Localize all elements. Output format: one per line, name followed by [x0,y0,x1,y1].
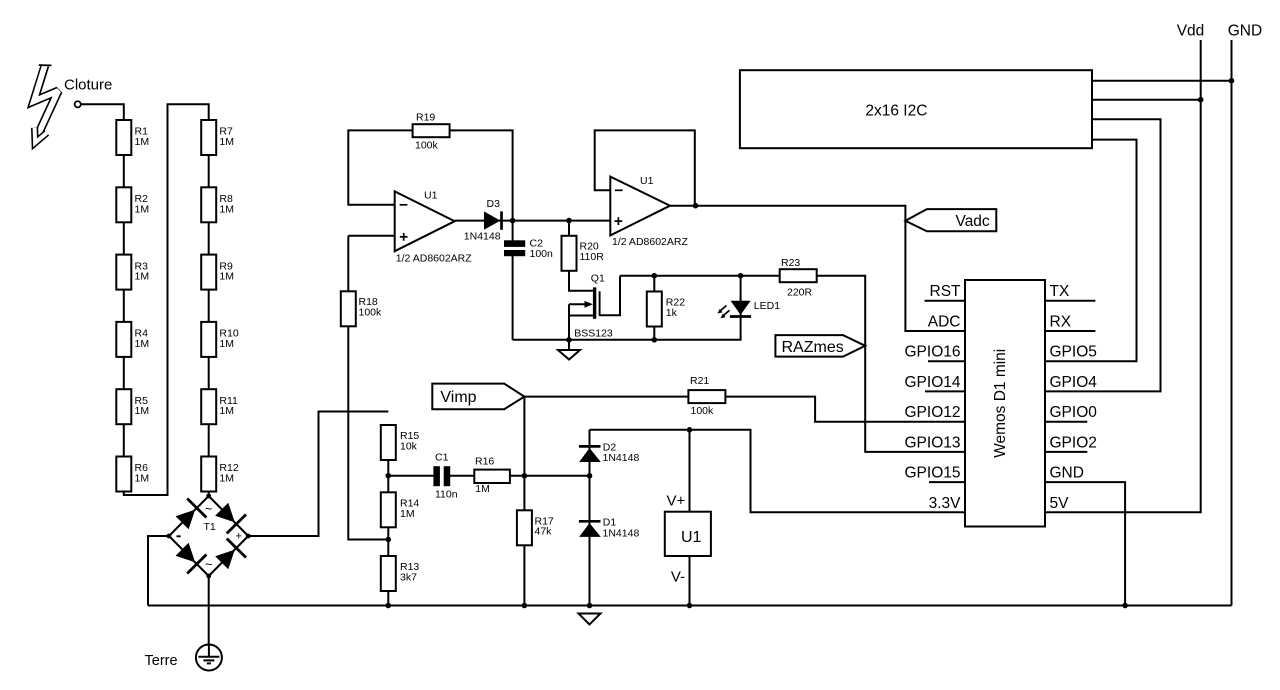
net flag RAZmes [775,335,865,357]
svg-text:RX: RX [1050,314,1072,331]
module LCD 2x16 I2C [740,70,1092,148]
svg-text:~: ~ [205,557,213,572]
diode D3 1N4148 [464,198,502,242]
pin labels Wemos right (TX RX GPIO5 GPIO4 GPIO0 GPIO2 GND 5V) [1050,283,1098,512]
junction LCD/GND [1229,78,1235,84]
wire Cloture terminal to R1..R6 column, up to R7..R12 column [81,104,209,496]
resistor R10 1M [201,322,239,357]
resistor R11 1M [201,389,238,424]
wire bridge + output to R15 top [248,412,388,537]
svg-text:GPIO2: GPIO2 [1050,434,1097,451]
wire R23 to RAZmes / GPIO13 [815,276,966,452]
resistor R22 1k [647,292,685,327]
junction R15/R14/C1 node [386,473,392,479]
op-amp U1 (1/2 AD8602ARZ) second half [610,175,688,248]
svg-text:Q1: Q1 [591,273,605,285]
capacitor C1 110n [433,451,457,500]
ground (Q1 source) [558,350,580,360]
svg-text:GND: GND [1050,465,1084,482]
svg-text:T1: T1 [204,521,216,533]
svg-text:1M: 1M [400,508,415,520]
LED LED1 [717,300,780,318]
resistor R17 47k [517,510,554,545]
power label Vdd [1177,22,1205,39]
IC Wemos D1 mini [965,280,1045,527]
wire R16 to Vimp node to D1/D2 node [510,475,590,477]
svg-text:5V: 5V [1050,495,1070,512]
svg-text:Wemos D1 mini: Wemos D1 mini [992,349,1009,458]
svg-text:GPIO13: GPIO13 [905,434,961,451]
wire Vimp net to R21 [524,396,688,398]
junction Vimp/R16/R17 node [522,473,528,479]
wire R22 vertical [653,276,655,340]
wire U1 V+ / V- [689,430,691,606]
ground (D1 / main rail) [579,614,601,625]
resistor R5 1M [116,389,149,424]
svg-text:1M: 1M [135,338,150,350]
ground Terre (earth electrode) [196,645,222,671]
wire D2/D1 chain [589,430,591,606]
svg-text:Cloture: Cloture [64,77,112,94]
junction R14/R13/R18 node [386,537,392,543]
svg-text:1M: 1M [135,136,150,148]
junction dots on ground rail [386,603,1128,609]
svg-text:GPIO5: GPIO5 [1050,344,1097,361]
svg-text:Vdd: Vdd [1177,22,1205,39]
resistor R7 1M [201,120,234,155]
transistor Q1 BSS123 (N-MOSFET) [569,273,613,340]
wire Q1 source to ground [569,276,620,350]
junction R22 top / LED1 top [652,273,744,279]
svg-text:1M: 1M [135,203,150,215]
wire bridge AC bottom to Terre earth [208,576,210,645]
capacitor C2 100n [504,237,553,259]
resistor R2 1M [116,187,149,222]
svg-text:GPIO15: GPIO15 [905,465,961,482]
wire LCD SDA to GPIO4 [1045,119,1161,391]
svg-text:GPIO16: GPIO16 [905,344,961,361]
wire Vimp node down to R16/R17 junction [523,397,525,476]
svg-text:1k: 1k [666,307,678,319]
svg-text:C1: C1 [435,451,449,463]
svg-text:GPIO12: GPIO12 [905,404,961,421]
label Terre [145,653,178,669]
svg-text:TX: TX [1050,283,1070,300]
resistor R9 1M [201,255,234,290]
pin stub GPIO2 [1045,451,1087,453]
svg-text:100n: 100n [530,248,554,260]
wire op-amp U1a output / D3 / C2 node to U1b + input [455,220,611,222]
svg-text:110n: 110n [435,489,458,501]
svg-text:1M: 1M [475,483,490,495]
svg-text:V-: V- [671,569,685,586]
wire op-amp U1a - input feedback via R19 [348,130,512,339]
wire R18 bottom to R14/R13 junction [348,326,388,539]
resistor R12 1M [201,457,239,492]
wire R15 bottom / R14 top / C1 node [388,460,434,492]
net label Cloture [64,77,112,94]
svg-text:R19: R19 [416,112,435,124]
resistor R4 1M [116,322,149,357]
junction D3/C2/R20 node [510,218,572,224]
svg-text:1N4148: 1N4148 [464,230,501,242]
svg-text:V+: V+ [667,493,686,510]
resistor R18 100k [341,291,382,326]
svg-text:Vadc: Vadc [956,213,990,230]
pin labels Wemos left (RST ADC GPIO16 GPIO14 GPIO12 GPIO13 GPIO15 3.3V) [905,283,962,512]
svg-text:GPIO4: GPIO4 [1050,374,1098,391]
resistor R20 110R [562,236,605,271]
resistor R3 1M [116,255,149,290]
svg-text:10k: 10k [400,440,418,452]
junction LCD/Vdd [1198,97,1204,103]
svg-text:100k: 100k [691,405,715,417]
wire LCD pin1 to GND line [1092,80,1232,82]
svg-text:+: + [236,530,242,542]
bridge rectifier T1 [167,494,251,579]
power label GND [1228,22,1262,39]
svg-text:220R: 220R [787,287,813,299]
wire GND line [1231,40,1233,606]
svg-text:ADC: ADC [928,314,961,331]
junction D2/D1/R16 node [587,473,593,479]
wire R17 vertical [523,476,525,606]
svg-text:2x16 I2C: 2x16 I2C [865,102,927,119]
diode D2 1N4148 [579,441,640,464]
wire op-amp U1b feedback loop [595,130,695,205]
pin stub TX [1045,300,1095,302]
svg-text:GND: GND [1228,22,1262,39]
svg-text:BSS123: BSS123 [574,327,613,339]
svg-text:3.3V: 3.3V [929,495,962,512]
pin stub GPIO0 [1045,421,1087,423]
resistor R16 1M [474,456,510,496]
svg-text:1M: 1M [135,473,150,485]
svg-text:1N4148: 1N4148 [603,527,640,539]
wire bridge - output to ground rail [148,536,169,606]
wire LCD pin2 to Vdd line [1092,99,1201,101]
terminal Cloture [75,101,81,107]
wire Q1 gate / R22 / LED1 / R23 net [620,275,780,277]
resistor R1 1M [116,120,149,155]
svg-text:GPIO0: GPIO0 [1050,404,1098,421]
svg-text:1/2 AD8602ARZ: 1/2 AD8602ARZ [396,253,472,265]
pin stub GPIO15 [929,481,965,483]
pin stub RX [1045,330,1095,332]
resistor R8 1M [201,187,234,222]
svg-text:Vimp: Vimp [440,389,476,406]
wire op-amp U1b output to ADC pin (Vadc net) [670,206,965,331]
svg-text:~: ~ [205,501,213,516]
svg-text:RAZmes: RAZmes [782,339,844,356]
svg-text:47k: 47k [535,526,553,538]
svg-text:LED1: LED1 [754,300,780,312]
svg-text:1/2 AD8602ARZ: 1/2 AD8602ARZ [612,236,688,248]
svg-text:U1: U1 [424,190,438,202]
svg-text:R23: R23 [781,257,800,269]
svg-text:1N4148: 1N4148 [603,452,640,464]
svg-text:Terre: Terre [145,653,178,669]
svg-text:GPIO14: GPIO14 [905,374,961,391]
wire R20 top [568,221,570,236]
resistor R14 1M [381,492,420,527]
pin stub GPIO16 [928,360,965,362]
svg-text:1M: 1M [219,338,234,350]
svg-text:D3: D3 [487,198,501,210]
svg-text:100k: 100k [415,139,439,151]
op-amp U1 (1/2 AD8602ARZ) first half [395,190,473,265]
wire ground rail (bottom) [148,605,1232,607]
net flag Vimp [432,384,524,410]
wire C1 to R16 [450,475,475,477]
pin stub GPIO14 [925,390,965,392]
svg-text:R16: R16 [475,456,494,468]
wire R21 to GPIO12 [725,397,965,422]
svg-text:3k7: 3k7 [400,571,417,583]
wire GND pin to ground rail [1045,482,1125,605]
svg-text:1M: 1M [219,203,234,215]
svg-text:1M: 1M [219,405,234,417]
svg-text:1M: 1M [219,136,234,148]
resistor R15 10k [381,425,420,460]
wire LCD SCL to GPIO5 [1045,140,1137,362]
resistor R21 100k [688,375,725,417]
resistor R23 220R [780,257,817,299]
wire 3.3V net (D2 cathode / U1 V+ / 3.3V pin) [590,430,966,513]
svg-text:1M: 1M [135,271,150,283]
regulator U1 (V+/V-) [665,493,711,586]
wire R14 bottom / R13 [387,527,389,605]
svg-text:1M: 1M [219,271,234,283]
svg-text:U1: U1 [681,529,702,546]
svg-text:1M: 1M [135,405,150,417]
junction 3.3V / U1 V+ [687,427,693,433]
resistor R6 1M [116,457,149,492]
lightning bolt (fence pulse symbol) [34,65,59,143]
wire R18 top to op-amp U1 + input [348,236,394,291]
svg-text:U1: U1 [640,175,654,187]
wire R20 bottom to Q1 drain [569,271,593,291]
pin stub RST [925,300,966,302]
svg-text:R21: R21 [690,375,709,387]
junction U1b output/feedback [693,203,699,209]
resistor R13 3k7 [381,556,420,591]
junction Q1 source / R22 bottom on local rail [566,337,657,343]
wire local ground rail (C2/Q1/R22/LED1) [513,276,741,340]
wire Vdd line to 5V pin [1045,40,1201,512]
svg-text:1M: 1M [219,473,234,485]
svg-text:RST: RST [930,283,962,300]
svg-text:100k: 100k [359,306,383,318]
svg-text:110R: 110R [580,251,605,263]
diode D1 1N4148 [579,517,640,540]
net flag Vadc [905,209,996,231]
resistor R19 100k [413,112,450,152]
